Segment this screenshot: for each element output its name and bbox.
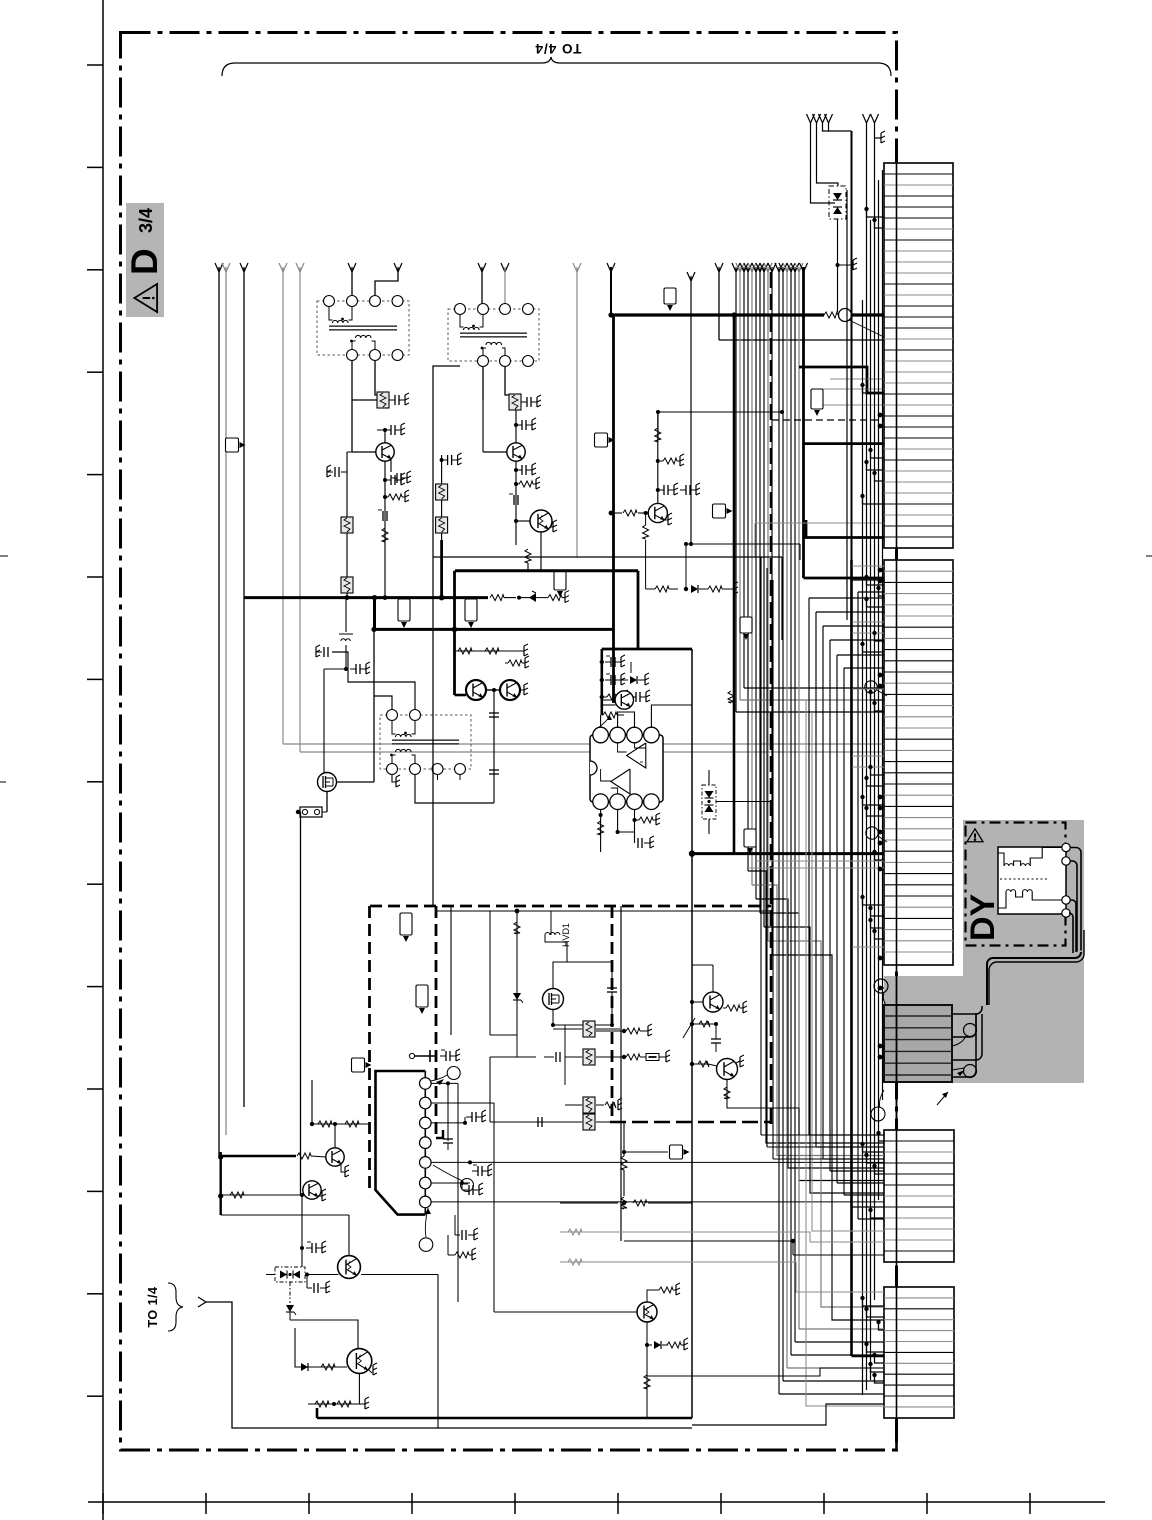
res box x589 y1057 [583,1049,595,1065]
transistor QA [326,1148,344,1166]
Q3 gnd stub [550,526,553,528]
Q2 collector [515,425,517,443]
fuse F1 [322,811,327,813]
tag in module [400,913,412,935]
wire y557 left extension [433,556,577,558]
DY pin circle A [964,1024,977,1037]
wire Q1 branch join bus597 [347,451,352,453]
cap sym y1141 [443,1138,453,1140]
DY pin circle B [964,1065,977,1078]
gray long wire y523 [755,522,884,524]
Q9b emitter chain [726,1080,728,1103]
wire thick x601 cluster caps [600,660,604,664]
caps y1122 row [530,1121,560,1123]
HV bus thick line [611,313,824,316]
CN5 pin5 wire [431,1161,884,1163]
DY connector stub wires [952,1006,982,1014]
DY pin wires [1070,848,1081,951]
branch x347 cap [346,452,348,585]
wire fuse to x300 drop [299,811,302,813]
U1 top pins [593,727,609,743]
protection diode pair D90 in dash-dot box [829,186,846,219]
black hooks into comb CN2 [867,577,885,585]
wire box to QC [305,1274,338,1276]
res + gnd y663 [510,662,518,664]
U1 bottom pin wires [600,810,602,853]
DY vertical deflection coil [998,892,1006,908]
Q7 top resistor to wire557 [657,412,659,440]
bundle G wires to comb CN4 [779,1393,884,1395]
wire y412 horizontal [658,411,782,413]
thick base feed [455,694,467,697]
wire y911 node [436,910,517,912]
Q1 collector net [384,430,386,443]
sheet border right vertical (solid through connectors) [896,163,898,1443]
switch contact [409,1053,414,1058]
edge stub left [0,555,8,557]
bus continues to comb CN1 [851,313,884,316]
Q6 base [602,704,616,706]
thick wire entry x803 [800,263,804,272]
tag x358 [352,1058,365,1072]
QD collector down [358,1373,360,1404]
QA emitter gnd [341,1164,345,1172]
svg-text:3/4: 3/4 [136,208,156,233]
Q8 source join [552,1010,554,1026]
module dashed border top [370,905,771,908]
U1 bottom pins [593,794,609,810]
CN5 pin7 wire long [431,1201,884,1203]
wire TO 1/4 to bottom bus [198,1297,206,1302]
electrolytic C22 [513,495,515,505]
thick vert x443 [440,540,443,598]
U1 opamp B [611,769,630,794]
zener D30 [517,596,521,600]
tag x422 [416,985,428,1007]
hline y1241 [624,1240,793,1242]
Q2 base chain [482,400,484,452]
transistor Q9 [703,992,723,1012]
junction dots comb CN2 [878,673,883,678]
DY lead pin circle left [874,979,888,993]
wire y557 long horizontal [577,556,782,558]
wire HV loop [545,935,567,942]
res box x650 rows [583,1097,595,1113]
DY coil box [998,847,1066,914]
cap C12 [385,429,391,431]
T3 right pins stubs [437,774,439,780]
extra harness line [989,930,1084,1005]
electrolytic to gnd y1248 [300,1246,304,1250]
DY connector (gray comb) [884,1005,952,1082]
thick bus y597 [244,596,488,599]
wire entry x691 [687,272,691,281]
value tag on bus [664,288,676,304]
page bottom ruler line [88,1501,1105,1503]
module dashed border mid [435,906,438,1138]
clamp diode row y589 [646,588,655,590]
resistor after bus597 [490,595,504,601]
T2 secondary wires [482,366,484,400]
electrolytic C14 [382,511,384,521]
transistor QE [637,1302,657,1322]
svg-text:HVD1: HVD1 [561,923,571,947]
Q5 gnd [520,689,524,691]
wire x719 to comb CN1 [719,339,884,341]
Q10 source wire + fuse F1 [326,792,328,813]
wire x374 drop [373,629,375,782]
cap C11 + ground [389,399,395,401]
wire row2 to diode box top [817,123,839,186]
dots under IC [599,813,603,817]
wire entry bundle G [775,263,779,272]
res row y1255 [452,1254,455,1256]
riser wires along connectors [862,300,864,1395]
DY dash-dot outline [966,823,1066,946]
wire entry bundle A [215,263,219,272]
vertical tags near bus629 [398,599,410,621]
wire to QD loop [290,1320,358,1348]
wire T3 pin up loop [332,652,415,710]
cap after switch [440,1055,446,1057]
cap + gnd on loop [323,647,325,657]
QE emitter chain [646,1322,648,1345]
CN5 detached pin bottom [419,1238,433,1252]
tag x746 (pointer down) [740,617,752,633]
vert x312 [311,1080,313,1124]
res boxes column x589 [564,1025,566,1085]
cap pair y697b [630,696,636,698]
T3 bottom pin gnd [392,774,396,782]
wire diode box down to bus [837,219,839,312]
wire row2 to diode box centre [811,123,836,203]
resistor R12 vertical [382,528,388,542]
wires x847 x852 [846,190,848,620]
CN5 detached pin top [447,1067,460,1080]
wires from CN5 region down-right [458,1301,692,1303]
thick vertical x734 from bus [733,315,736,854]
wire T3 pin to x374 [374,696,392,710]
Q10 drain wire [337,781,375,783]
res pair y1404 [308,1403,360,1405]
gray wire B2 to comb CN2 [300,751,884,753]
connector CN5 body [376,1071,426,1215]
lower staircase gray [806,700,884,1406]
cap C13 ground row [384,460,386,462]
module dashed border left [368,906,371,1190]
transformer T3 [380,715,471,769]
mid corridor verticals [760,557,762,1135]
zener chain [289,1282,291,1303]
DY warning triangle [967,829,983,842]
corridor origin hooks comb CN2 [809,597,884,599]
corridor verticals to comb CN3 [808,598,810,1135]
bundle F wires to comb CN2 [736,711,884,713]
CN5 pin6 wire [431,1182,470,1184]
spark gap leader line [849,320,884,337]
comb4 lower entries [692,1404,884,1425]
fusible resistor R11 [352,399,377,401]
Q9b base row [690,1062,694,1066]
CN5 pin2 wire [431,1102,494,1104]
CN5 pin1 wire [431,1082,458,1084]
power transistors Q4 Q5 [466,680,486,700]
transistor Q1 [352,429,377,431]
Q7 emitter gnd [665,519,668,521]
sheet dash-dot border [121,33,897,1451]
thin dashed wire to comb CN1 [772,419,884,421]
drive transformer T2 [448,309,539,361]
gray pair y861 y868 [756,860,884,862]
thick elbow x455 [453,571,456,695]
variable arrow slash [683,1018,695,1038]
connector comb CN2 (mid right) [884,560,953,965]
transistor Q9b [717,1059,738,1080]
transistor QC [338,1256,361,1279]
QC emitter wire right [361,1274,438,1276]
wire entry row2 small bundle [807,114,811,123]
fusible resistor R21 [505,399,509,401]
TO 4/4 bracket [222,57,891,76]
fusible resistor R14 [341,577,353,593]
thin bottom bus y1428 (already drawn) [437,1427,439,1429]
QE collector stub [647,1290,656,1302]
thick link bus597 to bus629 [373,598,376,630]
Q1 emitter chain [390,459,392,472]
transistor QD [347,1349,372,1374]
DY harness bus [987,952,1081,1005]
CN5 pin3 wire + caps [431,1122,465,1124]
gray wire B1 to comb CN2 [283,743,884,745]
thick bus y853 [692,852,884,855]
wire entry x611 -> HV bus [607,263,611,272]
tag x560 [554,570,566,590]
Q7 collector chain up [657,440,659,503]
Q1 base chain [351,400,353,452]
wire entry x719 [715,263,719,272]
Q9b collector row [690,1022,694,1026]
coil bumps near HVD1 [545,933,560,936]
deflection yoke assembly gray area [963,820,1084,1083]
thick bus y629 [374,628,614,631]
bus y1195 [221,1194,303,1196]
pin5 electrolytic [468,1160,472,1164]
wire down x302 [300,1193,304,1197]
long wires y1390 y1376 [647,1368,884,1376]
QE base wire [494,1311,637,1313]
bias resistors above Q4 Q5 [455,650,525,652]
thick wire hook to comb CN1 upper [799,367,884,393]
CN5 pins [420,1078,432,1090]
svg-text:D: D [124,248,165,275]
res cap under U1 [633,818,637,822]
leader arrow below comb CN2 [937,1092,948,1105]
vert resistor chain x624 [621,1156,627,1170]
Q4-Q5 link [486,689,500,691]
svg-text:DY: DY [964,893,1002,941]
long drop x621 [620,906,622,1241]
pin circle below DY connector [871,1107,885,1121]
wire entries row2 right pair [863,114,867,123]
Q7 base divider resistor [645,513,647,525]
diac D50 dash-dot box [702,785,716,819]
thick bottom bus start [316,1408,319,1418]
wires comb3 top entries [761,1134,884,1136]
bundle F staircase down to comb CN3/CN4 [748,871,884,1143]
tag near x817 [811,389,823,409]
transistor Q2 [507,443,525,461]
QD emitter gnd [369,1370,372,1373]
QD base chain [295,1328,347,1367]
thick bus y649 [602,648,692,651]
wire entry bundle F [732,263,736,272]
transistor Q6 [615,691,633,709]
TO 1/4 brace [168,1283,183,1331]
wire entry bundle B (gray pair) [279,263,283,272]
junction dots at comb left [878,413,883,418]
gray hooks into comb CN1 [830,378,884,380]
page left tick marks [87,64,103,66]
module dashed border right x612 [611,906,614,1122]
gray stubs into comb CN2 [852,565,884,567]
Q2 emitter chain [515,461,517,545]
cap row y490 [656,488,660,492]
wire T1 down [351,400,353,452]
tag pointer right x678 [624,1151,668,1153]
wire T2 down x460 [433,366,460,560]
Q9b gnd stub [736,1061,740,1063]
thick drop x601 [600,649,603,715]
sheet label D 3/4 [126,203,164,317]
svg-text:TO 4/4: TO 4/4 [534,41,581,56]
resistor R80 [297,1153,311,1159]
wire x451 drop [450,906,452,1035]
thick vertical x613 from bus [612,315,615,703]
gate drive coil symbol x346 [345,598,347,632]
page left ruler line [102,0,104,1520]
QC cap gnd [306,1275,308,1289]
riser hooks into comb rungs [867,209,885,217]
mid column x441 components [441,455,443,540]
fusible resistor R13 [341,517,353,533]
wire x433 drop (visible) [432,560,434,906]
wire entries to transformer T2 [478,263,482,272]
Q9 emitter res+gnd [723,1007,726,1009]
Q7 base feed [611,512,648,514]
tag x719 pointer right [713,504,726,518]
wire x433 drop [432,560,434,1035]
DY core dotted line [1000,878,1048,880]
gnd stub on riser [875,137,882,139]
edge stub right [1146,555,1152,557]
res on wire x731 [728,691,734,703]
Q3 emitter resistor [527,545,529,560]
wire entries to transformer T1 [348,263,352,272]
tag x600 [595,433,608,447]
zener D60 [513,993,521,1000]
page bottom tick marks [102,1493,104,1514]
hooks comb CN3 CN4 [875,1166,885,1174]
svg-text:TO 1/4: TO 1/4 [146,1287,160,1328]
res pair y1124 [312,1123,368,1125]
border corner stub [895,1429,898,1450]
Q9 collector [712,965,714,992]
tag x750 lower (pointer down) [744,829,756,847]
drive transformer T1 [317,301,409,355]
thick wire to comb CN2 b [804,577,885,580]
thick wire to comb CN1 lower [804,442,885,445]
cap ladder x494 [493,690,495,803]
connector comb CN3 (lower right) [884,1130,954,1262]
bus y1156 thick [221,1155,296,1157]
T1 secondary wires [351,360,353,400]
MOSFET Q8 [543,989,564,1010]
U1 opamp A [627,743,646,768]
gray pair y1247 y1262 [560,1232,884,1242]
MOSFET Q10 [318,773,337,792]
coil L70 [516,911,518,1035]
DY horizontal deflection coil [998,853,1004,866]
res gnd y697 [600,695,604,699]
U1 pin top wires [600,715,602,727]
hline y1203 [560,1202,624,1204]
QB emitter gnd [319,1195,322,1197]
Q6 emitter resistor arrow [603,712,617,718]
pin circles at comb2 left [865,681,877,693]
connector comb CN1 (top right) [884,163,953,548]
bottom bus wires to comb CN4 [692,1411,884,1418]
IC U1 vertical output [590,735,663,802]
rectifier diodes box [275,1267,305,1282]
transistor Q7 [648,503,667,522]
dash-dot section bottom [610,1121,771,1124]
res y412 junction [657,411,659,413]
wire row2 to earth bus [823,123,829,131]
tag pointing right (left margin) [226,438,239,452]
bus597 left drop [243,598,245,1107]
diode D40 [620,679,628,681]
border line through DY connector [896,976,898,1130]
thick bottom bus [317,1417,692,1420]
res+gnd rows x625 [622,1029,626,1033]
staircase into comb CN3 [809,1134,884,1136]
wire x686 link [685,544,687,589]
thick bus y570 [455,569,638,572]
transistor QB [303,1181,321,1199]
QC collector up [348,1215,350,1256]
wire entry x577 (gray) [573,263,577,272]
connector comb CN4 (bottom right) [884,1287,954,1418]
long center drop x692 [691,649,693,1418]
thick elbow x638 [637,571,640,649]
thick stub x221 [219,1152,221,1215]
T3 bottom wire loop right [415,774,494,803]
cap C21 + ground [521,401,527,403]
dash-dot section line x771 [770,272,773,1130]
Q3 collector down [540,532,542,571]
spark gap circle [839,309,852,322]
bus resistor [824,312,838,318]
diac wires [708,770,710,785]
transistor Q3 [530,510,552,532]
thick wire to comb CN2 a [806,520,884,538]
U1 feedback wires [618,743,627,752]
earth bus x852 thick [850,560,853,1356]
caps row y1235 [455,1234,460,1236]
DY pins [1062,843,1070,851]
Q8 wires [553,962,567,988]
wire y544 horizontal [686,543,800,545]
